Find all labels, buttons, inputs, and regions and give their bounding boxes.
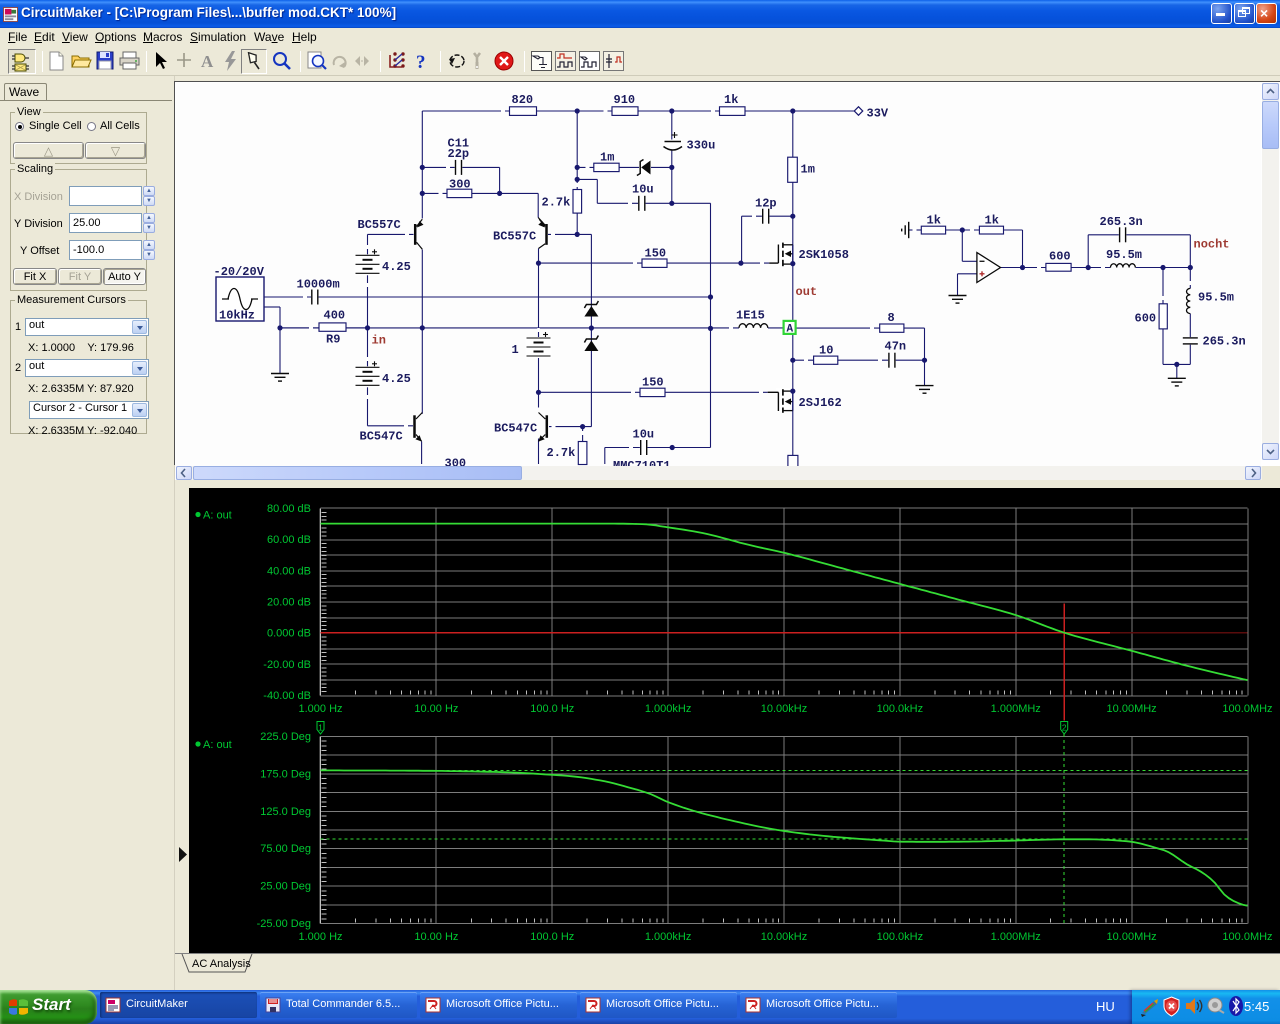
svg-text:-40.00 dB: -40.00 dB <box>263 690 311 702</box>
svg-text:100.0kHz: 100.0kHz <box>877 931 923 943</box>
wire: ground stem below 47n <box>924 360 926 385</box>
node A (green box) <box>784 321 796 334</box>
junction in row/BC547C-1 collector <box>420 325 425 330</box>
inductor 95.5m (horizontal) <box>1111 264 1136 268</box>
svg-text:1.000kHz: 1.000kHz <box>645 931 691 943</box>
junction nocht node <box>1188 265 1193 270</box>
svg-text:1k: 1k <box>927 214 941 228</box>
svg-text:4.25: 4.25 <box>382 260 411 274</box>
wire: ground stem below source <box>279 328 281 374</box>
svg-text:in: in <box>372 334 386 348</box>
svg-text:2.7k: 2.7k <box>547 446 576 460</box>
phase plot grid <box>321 736 1248 738</box>
wire: x=671.8 vertical (rail through 330u) <box>671 111 673 203</box>
task: CircuitMaker (active) <box>100 992 257 1018</box>
wire: BC547C-2 collector <box>538 392 540 407</box>
svg-text:95.5m: 95.5m <box>1198 291 1234 305</box>
junction crossover link upper <box>708 294 713 299</box>
svg-text:1m: 1m <box>801 163 815 177</box>
svg-text:10kHz: 10kHz <box>219 309 255 323</box>
junction 600v top <box>1160 265 1165 270</box>
start button <box>0 990 97 1024</box>
svg-text:1m: 1m <box>600 151 614 165</box>
svg-text:47n: 47n <box>885 340 907 354</box>
wire: x=538.5 battery 1 down to 150 row <box>538 356 540 392</box>
svg-text:1.000 Hz: 1.000 Hz <box>298 703 342 715</box>
wire: x=367.5 vertical (in node chain) <box>367 234 369 425</box>
junction battery1/150 row <box>536 390 541 395</box>
svg-text:-20/20V: -20/20V <box>214 265 265 279</box>
junction rail/820-910 <box>575 108 580 113</box>
svg-text:300: 300 <box>445 457 467 467</box>
wire: 10u upper row <box>597 202 710 204</box>
junction 12p/gate <box>738 261 743 266</box>
svg-text:80.00 dB: 80.00 dB <box>267 503 311 515</box>
junction 1m row left <box>575 165 580 170</box>
junction source/ground <box>277 325 282 330</box>
wire: BC547C-2 base row <box>549 426 591 428</box>
svg-text:150: 150 <box>645 247 667 261</box>
junction 2SK1058 source <box>790 261 795 266</box>
junction feedback tap <box>1086 265 1091 270</box>
wire: 600 vertical leg <box>1162 268 1164 365</box>
plots <box>175 488 1280 953</box>
wire: 2.7k-2 connection <box>582 427 584 442</box>
svg-text:910: 910 <box>614 93 636 107</box>
phase curve A: out <box>321 770 1248 905</box>
wire: opamp output row <box>1000 267 1046 269</box>
svg-text:8: 8 <box>888 311 895 325</box>
svg-text:A: out: A: out <box>203 739 232 751</box>
wire: 12p branch <box>742 215 793 217</box>
capacitor 330u (polarized) <box>663 140 682 151</box>
svg-text:0.000 dB: 0.000 dB <box>267 628 311 640</box>
wire: source box taps <box>264 306 280 308</box>
svg-text:265.3n: 265.3n <box>1203 335 1246 349</box>
wire: 400 row <box>280 327 368 329</box>
svg-text:AC Analysis: AC Analysis <box>192 958 251 970</box>
svg-text:10.00MHz: 10.00MHz <box>1107 703 1157 715</box>
svg-text:10: 10 <box>819 344 833 358</box>
MOSFET 2SK1058 <box>776 243 790 267</box>
voltage source V1 <box>216 277 264 321</box>
svg-text:10.00 Hz: 10.00 Hz <box>414 931 458 943</box>
wire: 10 resistor / 47n row <box>793 359 925 361</box>
svg-text:10.00 Hz: 10.00 Hz <box>414 703 458 715</box>
vertical scrollbar <box>1262 83 1279 460</box>
svg-text:75.00 Deg: 75.00 Deg <box>260 843 311 855</box>
svg-text:40.00 dB: 40.00 dB <box>267 565 311 577</box>
wire: link to 10u upper <box>577 178 597 180</box>
svg-text:A: A <box>201 52 214 71</box>
svg-text:1k: 1k <box>724 93 738 107</box>
op-amp U1 <box>977 253 1001 283</box>
0 dB red reference line <box>321 632 1111 634</box>
wire: ground stem RLC <box>1176 364 1178 378</box>
svg-text:4.25: 4.25 <box>382 372 411 386</box>
wire: BC547C-1 collector <box>421 328 423 414</box>
svg-text:10u: 10u <box>633 428 655 442</box>
junction rail/330u <box>669 108 674 113</box>
wire: y=328 row (in node to A) <box>280 327 739 329</box>
wire: 10u lower row <box>605 447 711 449</box>
wire: x=422.3 vertical (rail to BC557C-1 emitter) <box>421 111 423 219</box>
svg-text:22p: 22p <box>448 147 470 161</box>
wire: 150 row to 2SJ162 gate <box>539 391 768 393</box>
horizontal scrollbar <box>176 466 1262 480</box>
svg-text:125.0 Deg: 125.0 Deg <box>260 806 311 818</box>
svg-text:BC557C: BC557C <box>493 230 536 244</box>
transistor Q BC547C-1 (NPN) <box>413 415 416 438</box>
wire: y=297 row (from 10000m cap) <box>264 296 711 298</box>
wire: BC547C-2 emitter down <box>538 439 540 465</box>
svg-text:-20.00 dB: -20.00 dB <box>263 659 311 671</box>
svg-text:1.000kHz: 1.000kHz <box>645 703 691 715</box>
junction 12p right <box>790 214 795 219</box>
wire: BC557C-2 collector down to y=263 row <box>539 244 546 249</box>
junction 2SJ162 drain <box>790 389 795 394</box>
red cursor vertical line <box>1063 604 1065 721</box>
wire: feedback 265.3n row <box>1087 235 1089 268</box>
transistor Q BC557C-1 (PNP) <box>414 224 417 245</box>
menu bar <box>0 28 1280 47</box>
svg-text:100.0 Hz: 100.0 Hz <box>530 703 574 715</box>
junction 10u lower right <box>670 445 675 450</box>
svg-text:10.00kHz: 10.00kHz <box>761 931 807 943</box>
wire: BC557C-2 base lead to zener chain <box>548 233 591 235</box>
wire: x=792.8 main vertical (rail to bottom) <box>792 111 794 464</box>
svg-text:100.0MHz: 100.0MHz <box>1222 931 1272 943</box>
transistor Q BC557C-2 (PNP mirrored) <box>545 224 548 245</box>
junction 47n right <box>922 358 927 363</box>
svg-text:-25.00 Deg: -25.00 Deg <box>257 918 311 930</box>
junction 300 left <box>420 191 425 196</box>
svg-text:265.3n: 265.3n <box>1100 215 1143 229</box>
left panel <box>0 76 175 990</box>
taskbar <box>0 990 1280 1024</box>
wire: BC557C-1 base lead <box>368 233 414 235</box>
Measurement Cursors group <box>10 300 147 434</box>
left beige strip + splitter arrow <box>175 487 189 953</box>
MOSFET 2SJ162 <box>776 388 790 412</box>
junction diode anode <box>669 165 674 170</box>
svg-text:10000m: 10000m <box>297 278 340 292</box>
Wave tab <box>4 83 47 100</box>
svg-text:1: 1 <box>318 723 323 733</box>
lead dash gaps <box>501 110 505 112</box>
cursor dashed lines <box>321 769 1248 771</box>
junction BC557C-2 collector <box>536 261 541 266</box>
svg-text:600: 600 <box>1049 250 1071 264</box>
junction in node <box>365 325 370 330</box>
svg-text:100.0kHz: 100.0kHz <box>877 703 923 715</box>
junction 10 resistor left <box>790 358 795 363</box>
svg-text:BC547C: BC547C <box>494 422 537 436</box>
junction C11/300 right <box>497 191 502 196</box>
junction 2.7k bottom <box>575 232 580 237</box>
cursor flag 1 <box>317 722 324 735</box>
transistor Q BC547C-2 (NPN mirrored) <box>546 415 549 438</box>
wire: C11 row <box>422 166 499 168</box>
wire: opamp input network <box>909 229 922 231</box>
junction C11 left <box>420 165 425 170</box>
svg-text:400: 400 <box>324 309 346 323</box>
wire: BC557C-1 collector to in row <box>421 250 423 328</box>
svg-text:225.0 Deg: 225.0 Deg <box>260 731 311 743</box>
svg-text:600: 600 <box>1135 312 1157 326</box>
Scaling group <box>10 169 147 291</box>
svg-text:60.00 dB: 60.00 dB <box>267 534 311 546</box>
junction zener mid <box>589 325 594 330</box>
svg-text:10.00kHz: 10.00kHz <box>761 703 807 715</box>
corner <box>1262 466 1280 480</box>
tab strip <box>175 953 1280 975</box>
svg-text:820: 820 <box>512 93 534 107</box>
svg-text:10u: 10u <box>632 183 654 197</box>
junction 10u upper right <box>669 201 674 206</box>
junction 2.7k-2 top <box>580 424 585 429</box>
junction rail/1m <box>790 108 795 113</box>
wire: A to 8 resistor to 47n node <box>793 327 925 329</box>
wire: x=577 vertical (rail to BC557C-2 base row) <box>576 111 578 234</box>
HU language <box>1096 999 1115 1014</box>
svg-text:BC557C: BC557C <box>358 218 401 232</box>
svg-text:nocht: nocht <box>1194 238 1230 252</box>
svg-text:R9: R9 <box>326 333 340 347</box>
svg-text:MMC710T1: MMC710T1 <box>613 459 671 466</box>
svg-text:2SJ162: 2SJ162 <box>799 396 842 410</box>
svg-text:150: 150 <box>642 376 664 390</box>
task: MS Office Picture x3 <box>420 992 577 1018</box>
svg-text:1.000MHz: 1.000MHz <box>991 703 1041 715</box>
magnitude curve A: out <box>321 524 1248 681</box>
svg-text:175.0 Deg: 175.0 Deg <box>260 768 311 780</box>
junction crossover link lower <box>708 326 713 331</box>
wire: +33V top rail <box>422 110 858 112</box>
inductor 95.5m (vertical) <box>1187 288 1191 313</box>
svg-text:1.000MHz: 1.000MHz <box>991 931 1041 943</box>
magnitude trace label <box>195 512 200 517</box>
node 33V terminal <box>854 107 862 115</box>
svg-text:?: ? <box>416 52 426 73</box>
svg-text:95.5m: 95.5m <box>1106 248 1142 262</box>
svg-text:BC547C: BC547C <box>360 430 403 444</box>
tray <box>1132 990 1280 1024</box>
schematic area <box>174 81 1280 465</box>
wire: BC547C-1 base lead <box>368 425 414 427</box>
svg-text:out: out <box>796 285 818 299</box>
svg-text:300: 300 <box>449 178 471 192</box>
cursor flag 2 <box>1061 722 1068 735</box>
svg-text:12p: 12p <box>755 197 777 211</box>
svg-text:2: 2 <box>1062 723 1067 733</box>
magnitude plot grid <box>321 507 1248 509</box>
junction 10u link <box>575 177 580 182</box>
svg-text:33V: 33V <box>867 107 889 121</box>
wire: 1m row <box>577 166 639 168</box>
svg-text:1E15: 1E15 <box>736 309 765 323</box>
wire: x=710.5 vertical <box>710 203 712 447</box>
svg-text:A: A <box>787 324 794 336</box>
phase trace label <box>195 741 200 746</box>
svg-text:10.00MHz: 10.00MHz <box>1107 931 1157 943</box>
svg-text:A: out: A: out <box>203 510 232 522</box>
task: Total Commander <box>260 992 417 1018</box>
inductor 1E15 <box>739 324 768 328</box>
junction 1k junction <box>960 227 965 232</box>
svg-text:1k: 1k <box>985 214 999 228</box>
svg-text:25.00 Deg: 25.00 Deg <box>260 881 311 893</box>
junction opamp output <box>1020 265 1025 270</box>
svg-text:20.00 dB: 20.00 dB <box>267 597 311 609</box>
ground (sideways, opamp input) <box>908 222 910 238</box>
svg-text:1.000 Hz: 1.000 Hz <box>298 931 342 943</box>
svg-text:100.0MHz: 100.0MHz <box>1222 703 1272 715</box>
svg-text:330u: 330u <box>687 139 716 153</box>
wire: BC547C-1 emitter down <box>421 442 423 465</box>
View group <box>10 112 147 164</box>
svg-text:1: 1 <box>512 343 519 357</box>
svg-text:100.0 Hz: 100.0 Hz <box>530 931 574 943</box>
zener diode (1m row) <box>639 160 651 175</box>
wire: y=263 row (to 2SK1058 gate) <box>539 262 770 264</box>
junction RLC ground node <box>1174 362 1179 367</box>
svg-text:2.7k: 2.7k <box>542 196 571 210</box>
svg-text:2SK1058: 2SK1058 <box>799 248 849 262</box>
title bar <box>0 0 1280 28</box>
toolbar <box>0 47 1280 76</box>
wire: 95.5m vertical leg <box>1189 314 1191 365</box>
wire: 300 row to BC557C-2 base chain <box>422 192 538 194</box>
